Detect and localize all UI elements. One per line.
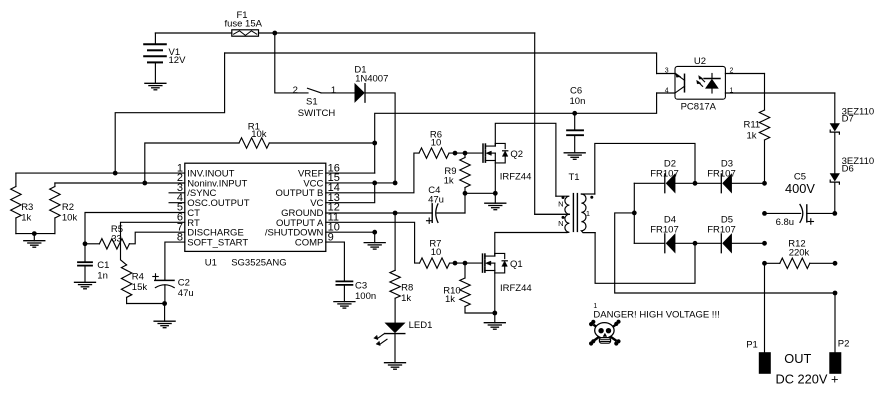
wire rail to opto pin3 [225, 53, 657, 74]
zener D6 3EZ110 [830, 156, 874, 213]
svg-text:10n: 10n [570, 96, 586, 107]
wire Q2 source down [494, 161, 496, 194]
wire R3/R2 to ground [16, 233, 55, 235]
fuse F1 [224, 10, 262, 36]
wire C4 up to R9 node [464, 193, 466, 213]
svg-text:IRFZ44: IRFZ44 [500, 283, 532, 294]
node Q1 source ground [492, 311, 497, 316]
svg-text:400V: 400V [785, 181, 815, 196]
capacitor C1 1n [78, 244, 109, 282]
terminal P1 [746, 340, 770, 374]
node R9/C4/source [463, 191, 468, 196]
svg-text:1k: 1k [401, 293, 411, 304]
node Q2 source ground [493, 191, 498, 196]
node secondary top / D2 D3 [693, 181, 698, 186]
wire P2 rail down [834, 293, 836, 353]
node C5 left [762, 211, 767, 216]
node GROUND/R8 [393, 211, 398, 216]
node junction at fuse output [272, 31, 277, 36]
node CT/R5/C1 [83, 241, 88, 246]
svg-text:D7: D7 [842, 114, 854, 125]
capacitor C3 100n [336, 281, 376, 303]
svg-text:LED1: LED1 [409, 320, 433, 331]
resistor R4 15k [121, 265, 147, 304]
svg-text:SWITCH: SWITCH [298, 108, 336, 119]
resistor R11 1k [743, 74, 769, 184]
svg-text:6.8u: 6.8u [776, 217, 795, 228]
svg-text:SOFT_START: SOFT_START [187, 237, 248, 248]
node R12 left [762, 261, 767, 266]
ground (Q1) [484, 323, 505, 330]
wire pin10 /SHUTDOWN to ground [326, 231, 375, 233]
node secondary bottom / D4 D5 [693, 241, 698, 246]
svg-text:1: 1 [331, 85, 336, 96]
wire down to R8 [394, 213, 396, 270]
node R1 to pin2 net [142, 181, 147, 186]
svg-text:1n: 1n [97, 271, 108, 282]
svg-text:/SHUTDOWN: /SHUTDOWN [265, 228, 324, 239]
svg-text:OUTPUT B: OUTPUT B [276, 188, 324, 199]
node bridge + top [762, 181, 767, 186]
svg-text:P2: P2 [838, 339, 850, 350]
svg-text:C1: C1 [97, 260, 109, 271]
node R6/R9 [463, 151, 468, 156]
svg-text:8: 8 [177, 231, 183, 243]
svg-text:FR107: FR107 [707, 225, 736, 236]
node C5 right [832, 211, 837, 216]
transistor Q2 IRFZ44 [483, 143, 531, 182]
svg-text:1N4007: 1N4007 [355, 73, 388, 84]
svg-text:PC817A: PC817A [681, 101, 717, 112]
pin 5 CT [177, 202, 200, 219]
wire D1 cathode down to VCC [365, 93, 395, 183]
resistor R12 220k [765, 238, 836, 268]
wire pin11 OUTPUT A to R7 [326, 222, 420, 263]
svg-text:1k: 1k [444, 175, 454, 186]
pin 9 COMP [295, 231, 334, 248]
svg-text:Q1: Q1 [510, 259, 523, 270]
output label [776, 351, 839, 386]
svg-text:47u: 47u [428, 195, 444, 206]
wire R9 to Q2 source [465, 192, 495, 194]
svg-text:P1: P1 [746, 340, 758, 351]
LED1 [374, 320, 432, 363]
switch S1 [293, 85, 336, 119]
wire DC+ down to P1 [764, 263, 766, 352]
svg-text:U1: U1 [205, 257, 217, 268]
ground (LED1) [385, 363, 406, 370]
svg-text:VCC: VCC [303, 178, 323, 189]
wire Q1 drain to transformer [495, 233, 567, 257]
bridge bottom row wire [634, 242, 665, 244]
node R4/C2 junction [162, 301, 167, 306]
transistor Q1 IRFZ44 [483, 253, 532, 294]
svg-text:R11: R11 [743, 120, 760, 131]
svg-text:fuse 15A: fuse 15A [224, 18, 262, 29]
ground (C1) [75, 282, 96, 289]
pin 13 VC [310, 192, 340, 209]
wire switch to D1 [321, 92, 355, 94]
ground (battery) [145, 83, 166, 90]
svg-text:220k: 220k [789, 247, 810, 258]
node on INV.INOUT net [113, 171, 118, 176]
svg-text:FR107: FR107 [650, 225, 679, 236]
resistor R8 1k [390, 270, 413, 323]
svg-text:10k: 10k [62, 213, 78, 224]
svg-text:D6: D6 [842, 164, 854, 175]
svg-text:16: 16 [328, 162, 340, 174]
zener D7 3EZ110 [830, 93, 874, 174]
wire rail down-left to pin 1 net [115, 53, 224, 173]
resistor R3 1k [11, 173, 34, 234]
resistor R2 10k [50, 183, 78, 234]
wire pin14 OUTPUT B to R6 [326, 153, 419, 193]
ground (Q2) [485, 203, 506, 210]
node R7/R10 [463, 261, 468, 266]
wire +12V down to transformer centre tap [535, 33, 566, 214]
wire pin16 VREF [326, 172, 375, 174]
diode D2 FR107 [650, 158, 679, 192]
svg-text:2: 2 [730, 67, 734, 74]
svg-text:1: 1 [586, 209, 590, 218]
ground (R3 R2) [24, 241, 45, 248]
capacitor C4 47u [427, 185, 466, 223]
wire fuse node to switch [275, 33, 308, 93]
ground (C3) [334, 302, 355, 309]
wire fuse to centre-tap rail (+12V) [259, 32, 535, 34]
wire secondary bottom to bridge [595, 233, 695, 284]
wire pin8 SOFT_START to C2 [165, 242, 185, 280]
svg-text:OUTPUT A: OUTPUT A [276, 218, 324, 229]
svg-text:1k: 1k [21, 213, 31, 224]
optocoupler U2 PC817A [657, 56, 835, 112]
diode D3 FR107 [707, 158, 736, 192]
svg-text:2: 2 [293, 85, 298, 96]
wire secondary top to bridge [595, 143, 695, 194]
svg-text:R8: R8 [401, 282, 413, 293]
pin 14 OUTPUT B [276, 182, 340, 199]
svg-text:47u: 47u [178, 288, 194, 299]
pin 15 VCC [303, 172, 340, 189]
IC U1 SG3525ANG [185, 163, 326, 268]
svg-text:4: 4 [665, 88, 669, 95]
bridge left side wire [633, 183, 635, 243]
svg-text:OUT: OUT [784, 351, 811, 366]
svg-text:DANGER! HIGH VOLTAGE !!!: DANGER! HIGH VOLTAGE !!! [593, 310, 719, 321]
svg-text:15k: 15k [132, 282, 148, 293]
capacitor C2 47u [153, 274, 194, 304]
bridge top row wire [634, 182, 665, 184]
svg-text:VREF: VREF [298, 169, 324, 180]
resistor R6 10 [419, 130, 483, 159]
svg-text:U2: U2 [694, 56, 706, 67]
svg-text:FR107: FR107 [707, 168, 736, 179]
node DC- / P2 [833, 291, 838, 296]
wire pin1 row [16, 172, 185, 174]
node R3 R2 junction [32, 231, 37, 236]
svg-text:10: 10 [431, 138, 442, 149]
danger label [593, 303, 719, 321]
svg-text:GROUND: GROUND [281, 208, 323, 219]
svg-text:R2: R2 [62, 202, 74, 213]
pin 11 OUTPUT A [276, 212, 339, 229]
wire pin2 row [55, 182, 185, 184]
capacitor C5 6.8u 400V [765, 172, 835, 228]
pin 16 VREF [298, 162, 340, 179]
svg-text:R4: R4 [132, 272, 144, 283]
svg-text:C3: C3 [355, 281, 367, 292]
svg-text:COMP: COMP [295, 237, 324, 248]
node VCC/VC [372, 181, 377, 186]
node VCC/D1 [393, 181, 398, 186]
wire Q1 source down [494, 271, 496, 314]
terminal P2 [830, 339, 850, 374]
svg-text:1k: 1k [445, 294, 455, 305]
svg-text:1k: 1k [746, 131, 756, 142]
wire VCC to pin13 VC [326, 183, 375, 203]
ground (R4 C2) [154, 321, 175, 328]
svg-text:T1: T1 [568, 172, 579, 183]
resistor R10 1k [443, 263, 495, 313]
svg-text:N: N [558, 199, 563, 208]
svg-text:1: 1 [730, 88, 734, 95]
battery V1 [144, 33, 186, 83]
wire battery to fuse [155, 32, 231, 34]
wire pin9 COMP to C3 [326, 242, 345, 280]
resistor R5 33 [85, 224, 185, 249]
pin 12 GROUND [281, 202, 340, 219]
svg-text:DC 220V +: DC 220V + [776, 372, 839, 387]
svg-text:Q2: Q2 [510, 149, 523, 160]
pin 1 INV.INOUT [177, 162, 235, 179]
svg-text:12V: 12V [169, 55, 187, 66]
pin 7 DISCHARGE [177, 221, 244, 238]
pin 10 /SHUTDOWN [265, 221, 340, 238]
diode D1 1N4007 [354, 65, 388, 103]
wire pin6 RT to R4 [121, 222, 185, 265]
pin 2 Noninv.INPUT [177, 172, 248, 189]
ground (pin10) [364, 243, 385, 250]
pin 6 RT [177, 212, 200, 229]
ground (C6) [564, 153, 585, 160]
svg-text:FR107: FR107 [650, 168, 679, 179]
capacitor C6 10n [567, 86, 585, 153]
svg-text:R3: R3 [21, 202, 33, 213]
node R6/gate [453, 151, 458, 156]
diode D5 FR107 [707, 214, 736, 252]
resistor R1 10k [145, 122, 375, 183]
node R7/gate [453, 261, 458, 266]
svg-text:3: 3 [665, 67, 669, 74]
wire pin15 VCC [326, 182, 395, 184]
VREF rail to optocoupler [375, 93, 657, 173]
svg-text:IRFZ44: IRFZ44 [500, 171, 532, 182]
wire pin12 GROUND row [326, 212, 432, 214]
svg-text:10: 10 [431, 247, 442, 258]
svg-text:100n: 100n [355, 291, 376, 302]
wire Q2 drain to transformer [495, 123, 556, 196]
node shutdown ground [372, 230, 377, 235]
svg-text:S1: S1 [306, 97, 318, 108]
skull and crossbones [590, 320, 621, 345]
transformer T1 [535, 172, 595, 232]
pin 3 /SYNC [169, 182, 216, 199]
resistor R7 10 [420, 239, 483, 269]
node R1 to VREF net [372, 141, 377, 146]
wire pin5 CT to C1 node [85, 213, 185, 244]
svg-text:SG3525ANG: SG3525ANG [231, 257, 286, 268]
pin 4 OSC.OUTPUT [169, 192, 250, 209]
svg-text:10k: 10k [251, 129, 267, 140]
wire DC- to P2 rail [615, 213, 835, 293]
node bridge - left [632, 211, 637, 216]
wire R4 to C2 ground node [127, 303, 165, 305]
node C6 tap [572, 111, 577, 116]
pin 8 SOFT_START [177, 231, 248, 248]
svg-text:N: N [558, 219, 563, 228]
node bridge + bottom [762, 241, 767, 246]
svg-text:VC: VC [310, 198, 323, 209]
resistor R9 1k [444, 153, 471, 193]
svg-text:C2: C2 [178, 278, 190, 289]
diode D4 FR107 [650, 214, 679, 252]
node R12 right [833, 261, 838, 266]
